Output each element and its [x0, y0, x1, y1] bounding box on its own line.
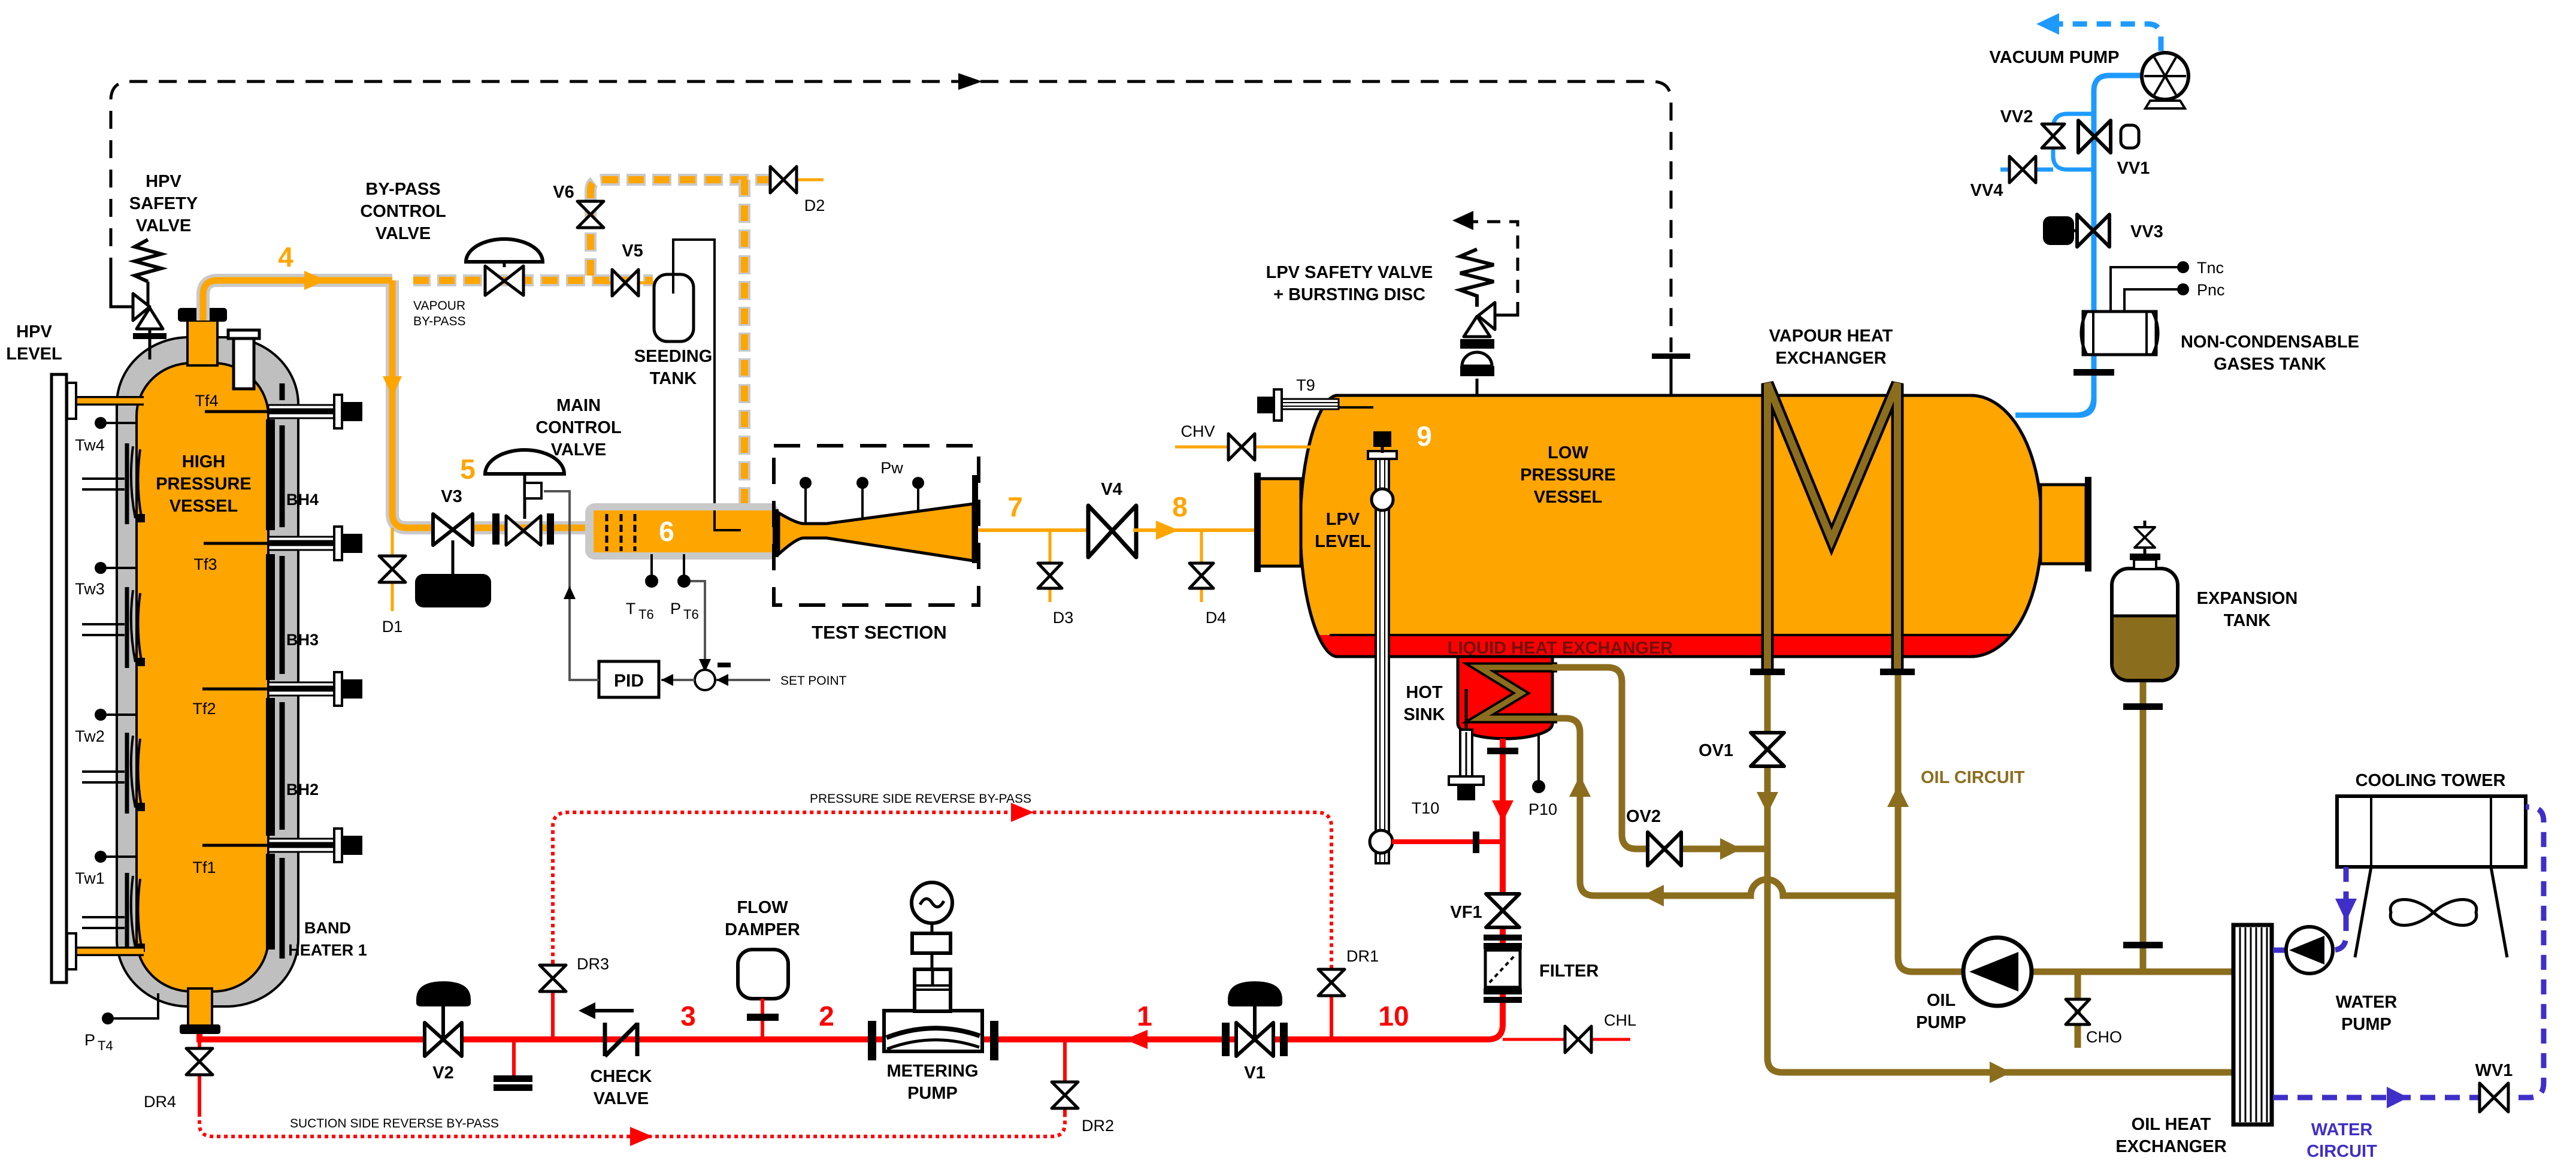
valve V3 — [433, 514, 473, 545]
VV3 actuator — [2043, 216, 2074, 245]
side port Tf4 — [268, 395, 362, 428]
hot sink vessel — [1458, 657, 1552, 739]
HPV bottom drain to suction by-pass — [198, 1039, 201, 1115]
main control valve positioner box — [525, 483, 541, 498]
inner wall arcs Tw4 — [131, 446, 141, 518]
drain valve D2 — [773, 179, 824, 182]
sensor T_T6 — [650, 554, 653, 576]
svg-text:HPV: HPV — [16, 322, 52, 341]
svg-text:VESSEL: VESSEL — [169, 497, 238, 516]
band heater bar BH1 — [266, 854, 275, 950]
oil pump — [1963, 938, 2032, 1006]
svg-text:CIRCUIT: CIRCUIT — [2306, 1142, 2377, 1161]
svg-text:D4: D4 — [1206, 609, 1227, 627]
svg-text:MAIN: MAIN — [556, 396, 601, 415]
HPV bottom neck — [188, 988, 212, 1026]
sensor T10 probe — [1465, 689, 1468, 734]
band heater bar BH4 — [266, 419, 275, 530]
heater element dashes — [607, 514, 635, 551]
LPV safety valve spring — [1460, 249, 1494, 307]
sensor Pnc — [2124, 289, 2179, 312]
svg-text:Tf2: Tf2 — [192, 700, 216, 718]
svg-text:HPV: HPV — [146, 172, 181, 191]
thermocouple line Tf3 — [204, 542, 335, 545]
svg-text:OV2: OV2 — [1626, 807, 1661, 826]
svg-text:VALVE: VALVE — [551, 440, 606, 459]
svg-text:LEVEL: LEVEL — [6, 344, 62, 364]
svg-text:DAMPER: DAMPER — [725, 920, 800, 939]
svg-text:+ BURSTING DISC: + BURSTING DISC — [1273, 285, 1425, 304]
valve VV2 — [2042, 124, 2065, 148]
valve CHV — [1228, 434, 1255, 460]
svg-text:LPV: LPV — [1326, 510, 1360, 529]
vapour by-pass dashed pipe horizontal — [413, 274, 653, 286]
LPV safety valve stack — [1476, 379, 1479, 395]
svg-text:TANK: TANK — [650, 369, 697, 388]
svg-text:SAFETY: SAFETY — [129, 194, 198, 213]
Pw pressure taps — [806, 486, 918, 525]
CHV line — [1175, 446, 1325, 449]
summation junction arrow — [699, 659, 711, 672]
sensor Tnc — [2111, 267, 2179, 312]
LPV level bottom float — [1370, 830, 1393, 853]
svg-text:VV2: VV2 — [2000, 107, 2033, 126]
summation circle — [695, 670, 715, 690]
svg-text:Tw3: Tw3 — [75, 580, 105, 598]
vapour by-pass dashed top horizontal to D2 — [603, 174, 773, 186]
venturi inlet plate — [773, 509, 779, 557]
svg-text:EXCHANGER: EXCHANGER — [2115, 1137, 2226, 1156]
drain valve DR3 — [540, 965, 566, 991]
svg-text:LIQUID HEAT EXCHANGER: LIQUID HEAT EXCHANGER — [1448, 639, 1673, 658]
svg-text:TEST SECTION: TEST SECTION — [812, 622, 947, 643]
band heater outer shell lines — [280, 383, 285, 959]
vessel LPV outline restroke — [1300, 395, 2042, 657]
svg-text:VF1: VF1 — [1450, 903, 1482, 922]
svg-text:9: 9 — [1416, 421, 1432, 452]
svg-text:Tw2: Tw2 — [75, 727, 105, 745]
arrow down on tower outlet — [2335, 899, 2357, 921]
suction side reverse by-pass dotted line — [199, 1113, 1065, 1136]
valve CHO — [2066, 999, 2090, 1024]
arrow down on vertical pipe to V3 — [383, 376, 402, 397]
dashed relief outlet — [1495, 315, 1518, 315]
drain valve DR1 — [1318, 969, 1345, 996]
svg-text:8: 8 — [1172, 491, 1188, 522]
pipe 4 from HPV top (casing) — [203, 280, 433, 528]
svg-text:WATER: WATER — [2336, 993, 2398, 1012]
side port Tf1 — [268, 829, 362, 862]
metering pump plunger — [915, 969, 951, 1011]
expansion tank flange lower — [2123, 942, 2163, 948]
svg-text:VALVE: VALVE — [136, 216, 191, 235]
vacuum line from LPV to vacuum pump — [2015, 75, 2143, 415]
svg-text:DR1: DR1 — [1346, 947, 1379, 965]
heater section body 6 — [594, 510, 775, 552]
svg-text:VESSEL: VESSEL — [1534, 488, 1602, 507]
svg-text:PUMP: PUMP — [1916, 1013, 1966, 1032]
thermocouple line Tf4 — [205, 410, 335, 413]
valve VV3 — [2077, 214, 2109, 247]
svg-text:BH2: BH2 — [286, 781, 319, 799]
wall sensor Tw3 — [95, 562, 107, 574]
svg-text:BY-PASS: BY-PASS — [413, 315, 466, 328]
svg-text:METERING: METERING — [886, 1062, 978, 1081]
svg-text:VV1: VV1 — [2117, 159, 2150, 178]
inner wall bars left — [125, 443, 129, 954]
venturi outlet plate — [972, 475, 978, 563]
svg-text:OIL CIRCUIT: OIL CIRCUIT — [1921, 768, 2025, 787]
svg-text:3: 3 — [680, 1000, 696, 1032]
drain line D3 — [1049, 530, 1052, 602]
water pump — [2286, 927, 2333, 974]
svg-text:LEVEL: LEVEL — [1315, 532, 1370, 551]
svg-text:6: 6 — [659, 516, 674, 547]
wire PID to control valve actuator — [544, 491, 599, 680]
HPV top neck cap — [178, 308, 227, 322]
LPV right nozzle end plate — [2085, 477, 2091, 572]
svg-text:10: 10 — [1378, 1000, 1409, 1032]
pipe 8 — [1133, 528, 1257, 532]
svg-text:Tw1: Tw1 — [75, 869, 105, 887]
svg-text:BAND: BAND — [304, 919, 351, 937]
svg-text:DR2: DR2 — [1082, 1117, 1114, 1135]
svg-text:PID: PID — [614, 671, 644, 691]
svg-text:VALVE: VALVE — [376, 224, 431, 243]
valve VV1 — [2078, 120, 2111, 153]
LPV left nozzle end plate — [1254, 473, 1261, 572]
liquid heat exchanger red band — [1288, 635, 2054, 659]
svg-text:P: P — [670, 600, 681, 618]
inner wall arcs Tw3 — [131, 590, 141, 662]
port T9 — [1257, 389, 1373, 421]
valve VF1 — [1486, 894, 1519, 927]
valve V4 — [1088, 506, 1136, 557]
svg-text:OIL HEAT: OIL HEAT — [2132, 1115, 2211, 1134]
svg-text:BH3: BH3 — [286, 631, 319, 649]
svg-text:NON-CONDENSABLE: NON-CONDENSABLE — [2181, 332, 2359, 352]
svg-text:FILTER: FILTER — [1539, 962, 1599, 981]
svg-text:FLOW: FLOW — [737, 898, 788, 917]
svg-text:SUCTION SIDE REVERSE BY-PASS: SUCTION SIDE REVERSE BY-PASS — [290, 1117, 499, 1130]
svg-text:VV4: VV4 — [1970, 181, 2003, 200]
svg-text:OV1: OV1 — [1699, 741, 1733, 760]
drain line D4 — [1200, 530, 1203, 602]
valve V6 — [577, 201, 604, 228]
V3 hand actuator — [415, 574, 491, 607]
svg-text:VAPOUR HEAT: VAPOUR HEAT — [1769, 327, 1893, 346]
cooling tower fan — [2390, 899, 2477, 925]
valve V5 — [605, 282, 654, 285]
svg-text:P: P — [84, 1031, 95, 1049]
side port Tf2 — [268, 672, 362, 706]
svg-text:V1: V1 — [1244, 1063, 1265, 1083]
svg-text:HIGH: HIGH — [182, 452, 226, 471]
expansion tank neck — [2134, 560, 2156, 569]
DR3 branch — [551, 962, 555, 1039]
oil pipe: pump line to vapour exchanger right leg — [1898, 675, 2233, 972]
band heater bar BH3 — [266, 554, 275, 680]
arrow on pipe 8 — [1156, 521, 1179, 540]
LPV right nozzle — [2041, 485, 2086, 564]
drain valve DR4 — [186, 1048, 213, 1075]
red line from hot sink to junction — [1500, 739, 1506, 863]
non-condensable gases tank — [2075, 249, 2094, 415]
svg-text:4: 4 — [278, 241, 293, 273]
svg-text:WATER: WATER — [2311, 1120, 2373, 1139]
flange on dashed line above LPV — [1652, 353, 1690, 359]
svg-text:T6: T6 — [638, 607, 654, 622]
svg-text:Tf1: Tf1 — [192, 858, 216, 876]
LPV safety valve body — [1478, 303, 1495, 329]
svg-text:V6: V6 — [553, 183, 574, 202]
svg-text:V2: V2 — [432, 1063, 453, 1083]
vessel LPV body — [1300, 395, 2042, 657]
heater section casing — [585, 503, 779, 560]
svg-text:HOT: HOT — [1406, 683, 1443, 702]
metering pump body — [884, 1011, 982, 1051]
svg-text:D1: D1 — [382, 618, 403, 636]
gases tank flange — [2073, 369, 2114, 376]
svg-text:CONTROL: CONTROL — [535, 418, 621, 437]
svg-text:CHO: CHO — [2086, 1028, 2122, 1046]
oil pipe: CHO stub — [2075, 972, 2081, 1048]
valve V1 — [1236, 1023, 1273, 1056]
arrow on line 1 — [1125, 1030, 1148, 1049]
wall sensor Tw1 — [95, 851, 107, 863]
main control valve stem — [523, 474, 526, 519]
svg-text:T9: T9 — [1296, 376, 1315, 394]
HPV level gauge connector bottom — [66, 933, 144, 969]
HPV level gauge connector top — [66, 383, 144, 419]
dashed vacuum exhaust — [2056, 24, 2161, 51]
valve V1 flanges — [1222, 1023, 1230, 1056]
vapour heat exchanger coil M — [1767, 383, 1897, 672]
wall sensor squares — [137, 514, 145, 952]
svg-text:LOW: LOW — [1548, 443, 1588, 462]
arrow left on hot sink return — [1642, 885, 1664, 906]
expansion tank flange upper — [2123, 703, 2163, 710]
inner wall arcs Tw1 — [131, 876, 141, 948]
svg-text:V4: V4 — [1101, 480, 1122, 499]
wire: solid stub into LPV top — [1670, 356, 1673, 395]
V3 hand actuator stem — [452, 540, 455, 575]
svg-text:BH4: BH4 — [286, 491, 319, 509]
wall sensor Tw4 — [95, 417, 107, 429]
svg-text:T10: T10 — [1412, 799, 1440, 817]
svg-text:SEEDING: SEEDING — [634, 347, 713, 366]
vessel HPV gray heating jacket — [117, 337, 298, 1006]
seeding injector stub inside heater — [715, 510, 741, 530]
HPV level gauge tube — [52, 374, 66, 982]
LPV level gauge top flange — [1368, 451, 1397, 459]
cooling tower legs — [2355, 867, 2371, 957]
LPV left nozzle — [1259, 479, 1301, 566]
PID feedback wire from P_T6 to summation — [691, 581, 705, 664]
svg-text:T: T — [626, 600, 636, 618]
svg-text:DR3: DR3 — [577, 955, 609, 973]
DR2 branch — [1063, 1039, 1067, 1115]
svg-text:VV3: VV3 — [2130, 222, 2163, 241]
sensor P_T6 — [683, 554, 685, 576]
by-pass control valve actuator — [466, 239, 543, 262]
check valve — [579, 1002, 637, 1056]
HPV top auxiliary port — [234, 338, 254, 389]
valve WV1 — [2480, 1083, 2508, 1112]
valve OV2 — [1648, 832, 1681, 866]
arrow on top dashed line — [958, 73, 982, 90]
expansion tank relief valve — [2144, 521, 2147, 554]
CHL stub — [1503, 1038, 1630, 1041]
arrow on pipe 4 — [304, 271, 326, 290]
V2 actuator — [416, 981, 471, 1006]
flange on level line — [1473, 832, 1479, 853]
sensor P_T4 — [102, 1012, 114, 1024]
water dashed: tower to water pump — [2332, 867, 2346, 950]
HPV safety valve spring — [135, 240, 161, 282]
expansion tank body — [2112, 569, 2178, 681]
by-pass control valve body — [485, 266, 523, 295]
svg-text:PRESSURE: PRESSURE — [1520, 465, 1616, 485]
arrow up on pump discharge riser — [1887, 785, 1909, 807]
svg-text:CHV: CHV — [1180, 422, 1215, 440]
svg-text:PRESSURE: PRESSURE — [156, 474, 252, 494]
HPV top neck — [187, 321, 217, 365]
svg-text:SET POINT: SET POINT — [780, 674, 847, 688]
metering pump flanges — [868, 1021, 876, 1060]
svg-text:GASES TANK: GASES TANK — [2214, 355, 2326, 374]
arrow right on bottom water line — [2387, 1087, 2408, 1108]
pipe 7 — [978, 528, 1091, 532]
svg-text:CHECK: CHECK — [590, 1067, 652, 1086]
vapour by-pass dashed vertical to heater — [738, 180, 750, 506]
wire summation to PID — [661, 679, 695, 681]
coil flange left — [1750, 669, 1785, 675]
expansion tank liquid — [2114, 616, 2176, 679]
svg-text:7: 7 — [1007, 491, 1023, 522]
filter flanges — [1484, 935, 1522, 941]
svg-text:CONTROL: CONTROL — [360, 202, 446, 221]
DR1 branch — [1330, 968, 1333, 1039]
main control valve flanges — [492, 513, 500, 545]
svg-text:WV1: WV1 — [2475, 1061, 2513, 1080]
svg-text:T4: T4 — [98, 1038, 113, 1053]
LPV level sight glass — [1372, 489, 1393, 510]
arrow up on hot sink return riser — [1569, 775, 1591, 797]
svg-text:D2: D2 — [804, 196, 825, 214]
bursting disc — [1460, 366, 1494, 376]
metering pump motor — [912, 882, 952, 923]
thermocouple line Tf2 — [202, 688, 335, 691]
main control valve body — [506, 516, 541, 545]
oil pipe: return to hot sink bottom — [1557, 718, 1898, 896]
vapour by-pass dashed vertical at V6 — [591, 180, 603, 276]
wire: solid elbow from HPV safety valve outlet — [111, 274, 133, 307]
oil pipe: left coil leg down through OV1 to oil heat exchanger bottom — [1767, 675, 2233, 1072]
svg-text:Pnc: Pnc — [2197, 281, 2225, 299]
filter body — [1485, 950, 1520, 987]
metering pump crank box — [912, 933, 951, 953]
arrow up on PID wire — [564, 586, 576, 599]
flow damper vessel — [738, 950, 788, 999]
drain valve D1 — [379, 556, 405, 582]
drain valve D4 — [1189, 563, 1213, 588]
HPV safety valve flange — [133, 333, 167, 339]
vacuum pump — [2145, 101, 2185, 108]
svg-text:P10: P10 — [1528, 800, 1557, 818]
sensor P10 — [1537, 736, 1540, 781]
test section dashed box — [774, 446, 979, 605]
valve V2 — [425, 1023, 462, 1056]
PID controller box — [599, 661, 659, 697]
seeding tank — [654, 274, 694, 341]
seeding injection line — [673, 240, 741, 530]
oil pipe: hot sink top to OV2 to junction — [1552, 667, 1767, 849]
vacuum by-pass loop VV2 — [2000, 114, 2094, 170]
LPV level to drain line — [1392, 839, 1503, 844]
svg-text:PRESSURE SIDE REVERSE BY-PASS: PRESSURE SIDE REVERSE BY-PASS — [810, 792, 1031, 806]
HPV bottom neck cap — [180, 1024, 220, 1034]
flange on hot sink drain — [1487, 748, 1518, 754]
svg-text:EXPANSION: EXPANSION — [2197, 589, 2298, 608]
svg-text:COOLING TOWER: COOLING TOWER — [2356, 771, 2506, 790]
svg-text:SINK: SINK — [1403, 705, 1445, 724]
drain valve DR2 — [1052, 1082, 1078, 1108]
oil pipe: expansion tank line — [2140, 680, 2147, 972]
svg-text:OIL: OIL — [1927, 991, 1956, 1010]
valve VV4 — [2009, 156, 2036, 183]
svg-text:HEATER 1: HEATER 1 — [288, 941, 367, 959]
valve OV1 — [1751, 733, 1784, 766]
svg-text:Tf4: Tf4 — [195, 392, 218, 410]
svg-text:Tw4: Tw4 — [75, 436, 105, 454]
wire: dashed vapour recirculation line HPV to LPV top — [111, 81, 1671, 352]
svg-text:DR4: DR4 — [144, 1093, 176, 1111]
svg-text:V3: V3 — [441, 487, 462, 506]
svg-text:PUMP: PUMP — [2341, 1015, 2392, 1034]
water pump inlet stub — [2273, 948, 2288, 953]
wall sensor Tw2 — [95, 709, 107, 721]
svg-text:PUMP: PUMP — [907, 1084, 958, 1103]
coil flange right — [1880, 669, 1915, 675]
svg-text:BY-PASS: BY-PASS — [365, 180, 440, 199]
svg-text:VAPOUR: VAPOUR — [413, 299, 465, 313]
arrow on suction by-pass — [630, 1127, 653, 1146]
svg-text:EXCHANGER: EXCHANGER — [1775, 349, 1886, 368]
cooling tower body — [2337, 796, 2526, 867]
V1 actuator — [1228, 981, 1282, 1006]
svg-text:Tnc: Tnc — [2197, 259, 2224, 277]
band heater bar BH2 — [266, 698, 275, 836]
side port Tf3 — [268, 527, 362, 560]
valve CHL — [1565, 1026, 1591, 1053]
arrow down after OV1 — [1757, 792, 1778, 814]
svg-text:CHL: CHL — [1604, 1011, 1636, 1029]
svg-text:5: 5 — [460, 454, 476, 485]
drain line D1 — [391, 528, 394, 611]
water dashed: exchanger bottom to WV1 to tower — [2273, 807, 2544, 1098]
hot sink coil — [1479, 667, 1557, 718]
svg-text:TANK: TANK — [2224, 611, 2271, 630]
svg-text:2: 2 — [819, 1000, 834, 1032]
pipe from V3 to main control valve to heater (casing) — [473, 521, 590, 534]
svg-text:D3: D3 — [1053, 609, 1074, 627]
svg-text:VALVE: VALVE — [594, 1089, 649, 1108]
arrow on pressure by-pass — [1011, 803, 1034, 822]
svg-text:Tf3: Tf3 — [193, 555, 217, 573]
LPV level gauge tube — [1376, 454, 1389, 863]
vessel HPV inner shell — [137, 363, 268, 991]
